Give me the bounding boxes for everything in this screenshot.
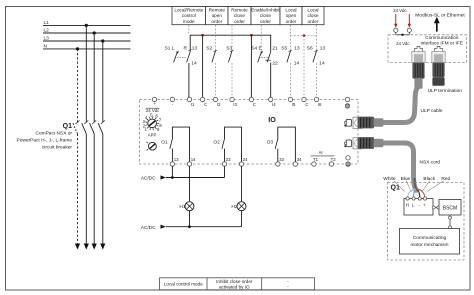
relay output O3 bridge <box>267 127 296 162</box>
arrowhead N feeder <box>75 244 80 250</box>
svg-text:close: close <box>308 13 319 18</box>
net L2 phase line <box>43 27 131 33</box>
breaker unit Q1 dashed enclosure <box>388 183 465 261</box>
switch S2 remote open <box>206 45 217 62</box>
ULP connection block H L - + <box>404 197 433 215</box>
link BSCM to motor mechanism <box>449 215 452 229</box>
svg-text:NSX cord: NSX cord <box>420 160 441 166</box>
svg-text:AC/DC: AC/DC <box>141 176 156 182</box>
link to BSCM <box>432 206 440 209</box>
NSX cord lower run <box>383 143 417 190</box>
switch S5 local open <box>281 45 300 66</box>
wire O1 to lamp H1 <box>189 166 191 202</box>
wire color label Red <box>427 176 450 192</box>
svg-text:activated by IO: activated by IO <box>219 285 250 290</box>
AC/DC supply feed 1 <box>141 166 225 181</box>
node junction C3 on dashed bus <box>303 34 305 36</box>
guide dashed from header box 5 to I5 <box>290 25 292 97</box>
net L1 phase line <box>43 20 131 26</box>
svg-text:Enable/Inhibit: Enable/Inhibit <box>251 8 280 13</box>
guide dashed from header box 2 to I2 <box>215 25 217 97</box>
svg-text:S2: S2 <box>206 45 212 51</box>
svg-text:24 Vdc: 24 Vdc <box>146 108 160 113</box>
junction on N <box>76 47 79 50</box>
svg-text:N: N <box>44 43 48 49</box>
svg-text:order: order <box>211 19 222 24</box>
svg-text:I2: I2 <box>217 102 221 107</box>
svg-text:13: 13 <box>294 45 300 51</box>
svg-text:open: open <box>286 13 297 18</box>
svg-text:ULP termination: ULP termination <box>428 88 463 94</box>
svg-text:order: order <box>260 19 271 24</box>
functional earth terminal bottom <box>346 156 350 167</box>
terminal 24Vdc minus (top) <box>170 97 174 101</box>
net L3 phase line <box>43 35 131 41</box>
svg-text:Blue: Blue <box>401 176 411 182</box>
ULP cable plug into interface <box>412 52 425 89</box>
svg-text:Red: Red <box>441 176 450 182</box>
wire N drop to breaker (dashed) <box>77 49 79 122</box>
svg-text:24 Vdc: 24 Vdc <box>396 41 410 46</box>
svg-text:Communication: Communication <box>425 35 459 41</box>
24 Vdc terminal stubs and node <box>396 32 410 36</box>
svg-text:Remote: Remote <box>209 8 226 13</box>
analog input AI group label <box>311 150 335 156</box>
arrowhead L2 feeder <box>92 244 97 250</box>
svg-text:S1 L: S1 L <box>165 45 175 51</box>
wire 24V control bus (top) <box>190 35 271 52</box>
svg-text:open: open <box>212 13 223 18</box>
circuit breaker Q1 pole L1 <box>82 120 89 243</box>
svg-text:I4: I4 <box>272 102 276 107</box>
ULP port 2 on IO module <box>344 138 362 149</box>
summary table <box>160 278 315 290</box>
wire color label White <box>383 176 404 192</box>
junction on L3 <box>101 39 104 42</box>
svg-text:T2: T2 <box>331 157 337 162</box>
functional earth terminal top <box>345 97 349 108</box>
guide dashed from header box 1 <box>188 25 190 34</box>
svg-text:Modbus-SL or Ethernet: Modbus-SL or Ethernet <box>415 13 465 19</box>
function header box: Remote open order <box>206 7 229 25</box>
24 Vdc arrow 1 <box>394 14 397 28</box>
24 Vdc terminal 2 on interface <box>407 28 411 32</box>
wire bus dashed segment S5-S6 <box>291 35 317 37</box>
terminal 33 (bottom) <box>276 157 285 166</box>
breaker Q1 description label <box>17 131 73 151</box>
cord wire white <box>408 189 416 198</box>
switch S3 remote close <box>226 45 233 62</box>
svg-text:14: 14 <box>191 60 197 66</box>
svg-text:33: 33 <box>279 157 284 162</box>
IO module dashed enclosure <box>140 100 359 165</box>
lamp H1 <box>179 202 194 211</box>
svg-text:O3: O3 <box>267 139 274 145</box>
svg-text:AI: AI <box>319 150 323 155</box>
APP rotary address switch <box>143 112 163 137</box>
svg-text:I1: I1 <box>191 102 195 107</box>
svg-text:24: 24 <box>243 157 248 162</box>
RJ45 latch glyph plug 1 <box>415 46 423 51</box>
communicating motor mechanism box <box>400 229 460 255</box>
svg-text:close: close <box>260 13 271 18</box>
svg-text:22: 22 <box>272 60 278 66</box>
svg-text:34: 34 <box>297 157 302 162</box>
wire L3 drop to breaker <box>102 41 104 122</box>
terminal C (1) <box>200 97 207 107</box>
lower rotary switch <box>146 142 156 151</box>
svg-text:23: 23 <box>226 157 231 162</box>
svg-text:C: C <box>204 102 207 107</box>
ULP port 1 on IO module <box>344 117 362 128</box>
communication interface dashed enclosure <box>388 35 467 63</box>
svg-text:order: order <box>286 19 297 24</box>
terminal I3 <box>230 97 238 107</box>
svg-text:Inhibit close order: Inhibit close order <box>216 279 253 284</box>
svg-text:Local/Remote: Local/Remote <box>174 8 203 13</box>
wire L1 drop to breaker <box>85 25 87 122</box>
svg-text:interface IFM or IFE: interface IFM or IFE <box>421 41 463 47</box>
svg-text:L1: L1 <box>44 20 50 26</box>
wire O2 to lamp H2 <box>241 166 243 202</box>
svg-text:L3: L3 <box>44 35 50 41</box>
svg-text:13: 13 <box>320 45 326 51</box>
lamp H2 <box>231 202 246 211</box>
cord wire blue <box>414 190 416 199</box>
module BSCM <box>439 200 461 216</box>
wire C1 common drop <box>202 35 204 97</box>
communication interface label <box>421 35 463 47</box>
arrowhead L1 feeder <box>84 244 89 250</box>
svg-text:14: 14 <box>319 60 325 66</box>
svg-text:14: 14 <box>294 60 300 66</box>
terminal T1 <box>312 157 319 166</box>
svg-text:S6: S6 <box>307 45 313 51</box>
svg-text:Local: Local <box>285 8 296 13</box>
junction on L2 <box>93 31 96 34</box>
ULP plug on IO port 1 <box>358 117 384 129</box>
svg-text:+: + <box>423 202 426 207</box>
terminal I6 <box>314 97 322 107</box>
svg-text:ULP cable: ULP cable <box>421 108 443 114</box>
circuit breaker Q1 pole L3 <box>98 120 105 243</box>
svg-text:PowerPact H-, J-, L-frame: PowerPact H-, J-, L-frame <box>17 138 73 144</box>
svg-text:I3: I3 <box>233 102 237 107</box>
svg-text:T1: T1 <box>313 157 319 162</box>
terminal 14 (bottom) <box>187 157 196 166</box>
svg-text:21: 21 <box>272 45 278 51</box>
arrowhead L3 feeder <box>100 244 105 250</box>
cord wire red <box>417 189 425 198</box>
wire L2 drop to breaker <box>93 33 95 122</box>
svg-text:I5: I5 <box>292 102 296 107</box>
circuit breaker Q1 pole L2 <box>90 120 97 243</box>
relay output O1 bridge <box>161 127 189 162</box>
switch S4 selector Enable/Inhibit with NC contact 21-22 <box>251 45 278 97</box>
terminal 24 (bottom) <box>239 157 248 166</box>
svg-text:S4 E: S4 E <box>251 45 261 51</box>
terminal 13 (bottom) <box>170 157 179 166</box>
svg-text:motor mechanism: motor mechanism <box>410 242 448 248</box>
svg-text:L2: L2 <box>44 27 50 33</box>
svg-text:Communicating: Communicating <box>413 235 447 241</box>
svg-text:S3: S3 <box>226 45 232 51</box>
svg-text:mode: mode <box>183 19 195 24</box>
svg-text:Q1: Q1 <box>63 123 72 130</box>
cord wire black <box>417 190 420 199</box>
terminal 34 (bottom) <box>293 157 302 166</box>
ULP cable upper run <box>383 88 418 122</box>
wire color label Black <box>422 176 436 192</box>
terminal I2 <box>213 97 221 107</box>
svg-text:C: C <box>305 102 308 107</box>
svg-text:control: control <box>182 13 196 18</box>
terminal C (2) <box>249 97 256 107</box>
24 Vdc arrow 2 <box>408 14 411 28</box>
svg-text:AC/DC: AC/DC <box>141 225 156 231</box>
net N neutral line <box>43 43 131 49</box>
svg-text:circuit breaker: circuit breaker <box>42 145 73 151</box>
svg-text:ComPact NSX or: ComPact NSX or <box>35 131 72 137</box>
wire C2 common drop <box>250 35 252 97</box>
guide dashed from header box 4 to S4 E contact <box>260 25 262 51</box>
function header box: Remote close order <box>228 7 251 25</box>
svg-text:O2: O2 <box>213 139 220 145</box>
switch S1 selector Local/Remote <box>165 45 198 97</box>
NSX cord dark tip <box>415 178 417 190</box>
function header box: Local close order <box>302 7 324 25</box>
switch S6 local close <box>307 45 326 66</box>
24 Vdc terminal 1 on interface <box>394 28 398 32</box>
terminal I4 <box>269 97 277 107</box>
svg-text:IO: IO <box>268 115 276 124</box>
terminal C (3) <box>302 97 309 107</box>
wire color label Blue <box>401 176 412 192</box>
function header box: Enable/Inhibit close order <box>251 7 280 25</box>
ULP termination plug <box>432 52 445 86</box>
circuit breaker Q1 pole N (dashed) <box>73 120 80 243</box>
svg-text:H: H <box>406 202 409 207</box>
svg-text:Remote: Remote <box>231 8 248 13</box>
svg-text:I6: I6 <box>318 102 322 107</box>
AC/DC return feed 2 <box>141 211 242 231</box>
svg-text:order: order <box>308 19 319 24</box>
node junction C1 on bus <box>201 34 203 36</box>
guide dashed from header box 6 to I6 <box>316 25 318 97</box>
terminal 24Vdc plus (top) <box>152 97 156 101</box>
svg-text:Local: Local <box>307 8 318 13</box>
svg-text:24 Vdc: 24 Vdc <box>393 8 407 13</box>
svg-text:C: C <box>253 102 256 107</box>
wire C3 common drop (dashed) <box>303 36 305 98</box>
svg-text:L: L <box>412 202 415 207</box>
svg-text:order: order <box>234 19 245 24</box>
svg-text:O1: O1 <box>161 139 168 145</box>
svg-text:BSCM: BSCM <box>443 206 457 212</box>
svg-text:APP: APP <box>148 133 157 138</box>
svg-text:13: 13 <box>174 157 179 162</box>
guide dashed from header box 3 to I3 <box>231 25 233 97</box>
RJ45 latch glyph plug 2 <box>435 46 443 51</box>
svg-text:S5: S5 <box>281 45 287 51</box>
terminal I1 <box>187 97 195 107</box>
terminal T2 <box>329 157 336 166</box>
Modbus up arrow <box>434 17 440 32</box>
function header box: Local open order <box>280 7 302 25</box>
relay output O2 bridge <box>213 127 241 162</box>
terminal 23 (bottom) <box>222 157 231 166</box>
24 Vdc input marks and label <box>146 101 174 113</box>
ULP plug on IO port 2 <box>358 137 384 149</box>
svg-text:close: close <box>234 13 245 18</box>
junction on L1 <box>85 24 88 27</box>
terminal I5 <box>288 97 296 107</box>
svg-text:14: 14 <box>191 157 196 162</box>
function header box: Local/Remote control mode <box>172 7 206 25</box>
svg-text:R: R <box>184 45 188 51</box>
node junction C2 on bus <box>250 34 252 36</box>
svg-text:Local control mode: Local control mode <box>164 282 203 287</box>
svg-text:13: 13 <box>192 45 198 51</box>
